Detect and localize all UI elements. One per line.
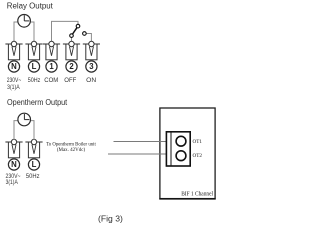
svg-text:Relay Output: Relay Output (7, 2, 54, 11)
svg-text:3(1)A: 3(1)A (7, 85, 20, 91)
svg-text:OT2: OT2 (193, 153, 203, 159)
svg-text:OFF: OFF (64, 78, 76, 84)
svg-text:Opentherm Output: Opentherm Output (7, 98, 68, 107)
svg-text:3(1)A: 3(1)A (6, 180, 18, 186)
svg-text:230V~: 230V~ (6, 174, 21, 180)
svg-text:To Opentherm Boiler unit: To Opentherm Boiler unit (46, 142, 96, 147)
svg-text:3: 3 (89, 62, 94, 71)
svg-text:(Fig 3): (Fig 3) (98, 214, 123, 224)
svg-text:L: L (32, 62, 37, 71)
svg-text:(Max. 42Vdc): (Max. 42Vdc) (57, 148, 86, 153)
svg-text:L: L (32, 160, 37, 169)
svg-text:2: 2 (69, 62, 74, 71)
svg-text:50Hz: 50Hz (26, 174, 40, 180)
svg-text:50Hz: 50Hz (28, 78, 41, 84)
svg-text:230V~: 230V~ (7, 78, 22, 84)
svg-text:ON: ON (86, 78, 96, 84)
svg-text:N: N (11, 160, 17, 169)
svg-text:OT1: OT1 (193, 139, 203, 145)
svg-text:BIF 1 Channel: BIF 1 Channel (181, 190, 213, 197)
svg-text:N: N (11, 62, 17, 71)
svg-text:1: 1 (49, 62, 54, 71)
svg-text:COM: COM (44, 78, 58, 84)
